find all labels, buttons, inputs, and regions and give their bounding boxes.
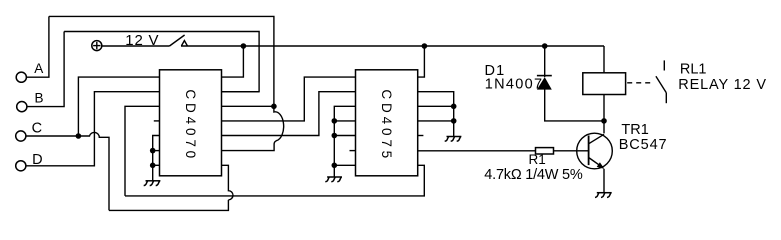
wire bottom rail C to U1 pin8	[109, 200, 228, 211]
ground U1 left	[144, 181, 161, 186]
relay RL1 coil	[583, 73, 626, 95]
U1 pin13 right to net B (corner)	[222, 91, 260, 93]
terminal D	[16, 161, 26, 171]
wire emitter to ground	[603, 169, 605, 193]
node U2 gnd pin5	[332, 133, 338, 139]
relay RL1 contact top terminal	[663, 60, 665, 70]
wire hop of pin8 stub over lower rail	[222, 165, 233, 200]
node A to U1 pin12	[271, 104, 277, 110]
svg-text:BC547: BC547	[619, 137, 668, 153]
U2 pin14 right VDD to 12V	[418, 46, 425, 77]
U2 pin10 right stub	[418, 135, 424, 137]
U1 pin10 right to U2 pin2 left	[222, 92, 356, 136]
resistor R1	[536, 148, 554, 154]
wire R1 to base	[554, 150, 589, 152]
svg-text:4.7kΩ 1/4W 5%: 4.7kΩ 1/4W 5%	[484, 167, 583, 183]
power symbol +12V	[92, 41, 102, 51]
node U1 gnd pin6	[150, 148, 156, 154]
ground U2 left	[325, 177, 342, 182]
transistor TR1 emitter arrow	[597, 162, 605, 169]
U2 right grounded pins 13,12,11	[418, 92, 454, 137]
node U2 gnd pin12	[451, 118, 457, 124]
U2 left grounded pins 3,4,5,7	[334, 106, 355, 177]
relay RL1 mechanical link (dashed)	[627, 82, 653, 84]
ground U2 right	[445, 137, 462, 142]
ground TR1 emitter	[595, 193, 612, 198]
net A vertical with hop over pins 11,10 then to pin9	[222, 106, 284, 150]
switch S1 fixed contact	[181, 41, 187, 46]
U1 pin12 right to net A junction	[222, 105, 274, 107]
wire D terminal to U1 pin2 left	[26, 92, 159, 166]
wire 12V to coil top	[603, 46, 605, 73]
svg-text:TR1: TR1	[621, 122, 648, 138]
diode D1 vertical trunk from 12V	[544, 46, 546, 77]
wire B terminal to corner	[27, 32, 64, 107]
transistor TR1 base bar	[588, 136, 590, 166]
switch S1 lever	[170, 35, 185, 46]
wire C with hop over D vertical	[78, 132, 109, 210]
svg-text:D: D	[32, 152, 42, 168]
node U2 gnd pin7	[332, 163, 338, 169]
U1 pin4 left stub	[154, 120, 160, 122]
svg-text:RL1: RL1	[680, 61, 707, 77]
wire lower mid rail to U2 pin8 right	[125, 165, 424, 196]
svg-text:12 V: 12 V	[125, 32, 159, 49]
node U2 gnd pin4	[332, 118, 338, 124]
wire U2 pin9 to R1	[418, 150, 536, 152]
wire C terminal to junction	[26, 135, 78, 137]
U1 left ground pins 5,6,7	[153, 136, 160, 181]
U1 pin3 left from below	[125, 106, 160, 196]
terminal A	[16, 72, 26, 82]
U2 pin6 left stub	[350, 150, 356, 152]
node U2 gnd pin13	[451, 104, 457, 110]
terminal B	[17, 102, 27, 112]
U1 pin14 right VDD to 12V	[222, 46, 244, 77]
U1 pin11 right to U2 pin1 left	[222, 77, 356, 121]
wire 12V rail	[181, 45, 604, 47]
svg-text:B: B	[35, 91, 44, 106]
svg-text:R1: R1	[529, 152, 546, 167]
wire C junction up to U1 pin1 left	[78, 77, 159, 136]
IC U1 CD4070 body	[160, 70, 222, 176]
node 12V U2 VDD	[422, 43, 428, 49]
svg-text:CD4075: CD4075	[379, 89, 394, 162]
relay RL1 contact lever	[656, 76, 666, 92]
node U1 gnd pin7	[150, 163, 156, 169]
transistor TR1 collector diagonal	[589, 134, 604, 144]
node 12V D1	[542, 43, 548, 49]
transistor TR1 emitter diagonal	[589, 158, 603, 168]
node collector	[601, 118, 607, 124]
wire A terminal to corner	[27, 16, 49, 77]
svg-text:C: C	[32, 120, 42, 136]
diode D1 triangle	[537, 77, 552, 90]
node 12V U1 VDD	[241, 43, 247, 49]
relay RL1 contact bottom terminal	[665, 93, 667, 104]
diode D1 cathode bar	[537, 75, 552, 77]
svg-text:CD4070: CD4070	[183, 89, 198, 162]
svg-text:1N4007: 1N4007	[485, 76, 544, 92]
transistor TR1 circle	[577, 133, 613, 169]
wire D1 anode to collector node	[545, 84, 604, 121]
IC U2 CD4075 body	[356, 70, 418, 176]
svg-text:RELAY 12 V: RELAY 12 V	[678, 77, 767, 93]
terminal C	[16, 131, 26, 141]
wire top rail net A	[49, 16, 274, 106]
wire second rail net B	[64, 32, 259, 92]
node C junction	[76, 133, 82, 139]
wire coil bottom to collector	[603, 95, 605, 134]
svg-text:A: A	[34, 61, 43, 76]
wire 12V feed to switch	[102, 45, 169, 47]
